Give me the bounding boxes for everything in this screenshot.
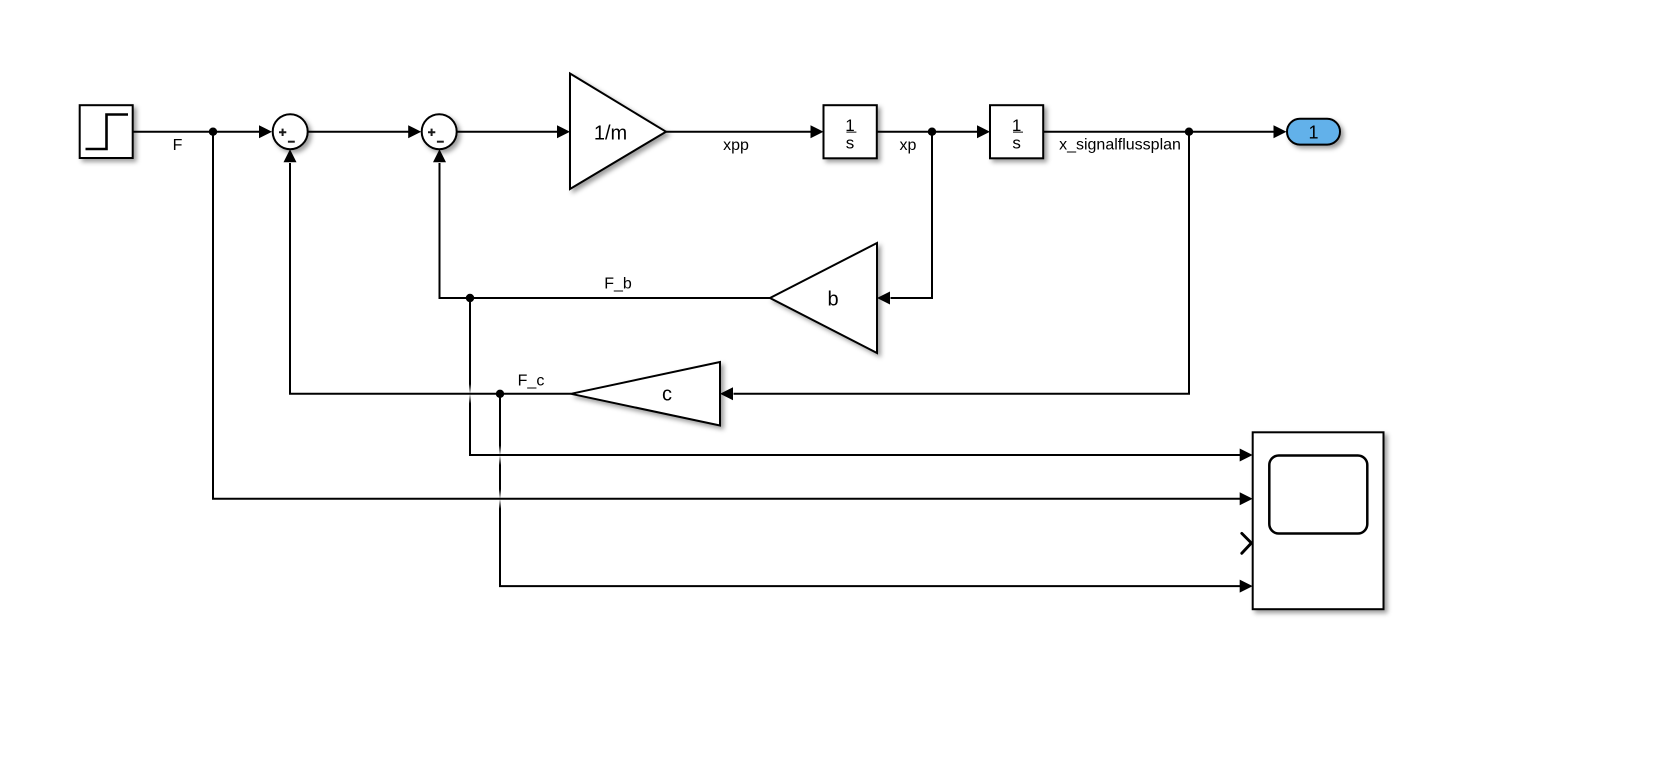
- svg-text:xp: xp: [900, 137, 917, 154]
- svg-text:x_signalflussplan: x_signalflussplan: [1059, 137, 1181, 154]
- svg-text:1: 1: [1308, 122, 1318, 142]
- svg-text:b: b: [827, 289, 838, 311]
- svg-text:F: F: [173, 137, 183, 154]
- svg-text:F_b: F_b: [604, 276, 632, 293]
- svg-text:1/m: 1/m: [594, 123, 627, 145]
- svg-text:xpp: xpp: [723, 137, 749, 154]
- svg-text:s: s: [846, 134, 855, 153]
- svg-text:s: s: [1012, 134, 1021, 153]
- svg-text:F_c: F_c: [518, 373, 545, 390]
- svg-text:c: c: [662, 383, 672, 405]
